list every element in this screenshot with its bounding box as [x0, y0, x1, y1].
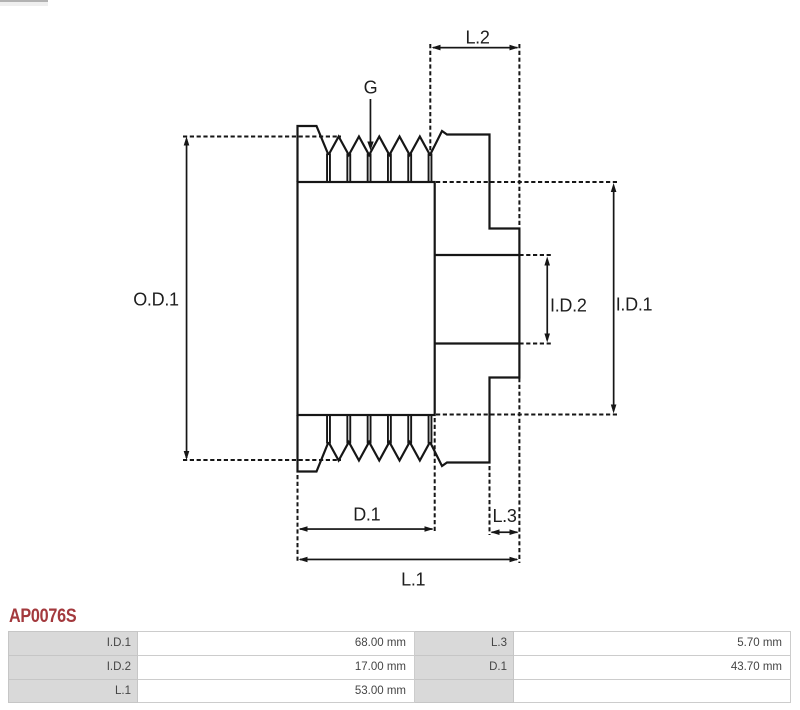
dimensions table — [8, 631, 791, 703]
O.D.1 dimension arrow line — [186, 139, 188, 458]
svg-text:D.1: D.1 — [353, 505, 380, 525]
L.3 left extension dashed line — [489, 466, 491, 535]
L.2 / L.1 right extension dashed line — [518, 44, 520, 228]
I.D.2 top extension dashed line — [519, 254, 551, 256]
pulley bottom-left step profile — [298, 415, 329, 472]
pulley top-right flange profile — [430, 131, 519, 466]
svg-text:I.D.1: I.D.1 — [616, 295, 653, 315]
O.D.1 bottom extension dashed line — [183, 459, 341, 461]
I.D.2 bottom extension dashed line — [519, 343, 551, 345]
D.1/L.1 left extension dashed line — [297, 475, 299, 563]
I.D.1 top extension dashed line — [436, 181, 618, 183]
L.2 dimension arrow line — [433, 47, 518, 49]
L.2 left extension dashed line — [429, 44, 431, 156]
I.D.1 bottom extension dashed line — [436, 414, 618, 416]
top-left scan artifact — [0, 0, 48, 2]
svg-text:I.D.2: I.D.2 — [550, 296, 587, 316]
L.1 dimension arrow line — [300, 559, 517, 561]
D.1 right extension dashed line — [434, 418, 436, 533]
svg-text:L.2: L.2 — [465, 28, 489, 48]
svg-text:G: G — [364, 78, 378, 98]
pulley body outline — [298, 182, 435, 415]
part number — [9, 606, 76, 628]
svg-text:L.3: L.3 — [492, 506, 516, 526]
O.D.1 top extension dashed line — [183, 136, 341, 138]
I.D.2 dimension arrow line — [546, 260, 548, 340]
svg-text:L.1: L.1 — [401, 570, 425, 590]
top groove slot walls — [327, 154, 431, 183]
hub top edge — [435, 254, 520, 256]
pulley top-left step profile — [298, 126, 329, 182]
D.1 dimension arrow line — [300, 528, 433, 530]
svg-text:O.D.1: O.D.1 — [133, 290, 179, 310]
I.D.1 dimension arrow line — [613, 186, 615, 411]
G pointer arrow — [370, 99, 372, 142]
bottom groove zigzag profile — [329, 442, 431, 461]
top groove zigzag profile — [329, 137, 431, 156]
hub bottom edge — [435, 342, 520, 344]
bottom groove slot walls — [327, 415, 431, 444]
L.3 dimension arrow line — [492, 531, 518, 533]
